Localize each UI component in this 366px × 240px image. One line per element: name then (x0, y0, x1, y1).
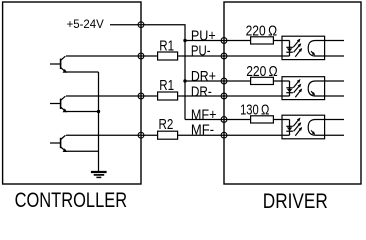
svg-text:130 Ω: 130 Ω (240, 103, 269, 119)
transistor Q1 (50, 56, 67, 72)
svg-text:R1: R1 (159, 78, 174, 94)
resistor R4 220 ohm (251, 77, 274, 84)
wire U1 anode input (224, 40, 251, 42)
wire feed bus to DR+ (185, 80, 224, 82)
node supply terminal on controller (138, 22, 144, 28)
wire feed bus to PU+ (185, 40, 224, 42)
node DR+ terminal on driver (221, 78, 227, 84)
wire U1 collector output (316, 40, 345, 42)
light arrows of U3 (293, 118, 302, 136)
svg-text:MF+: MF+ (191, 108, 217, 124)
wire Q3 emitter to ground rail (66, 150, 99, 152)
wire controller to R1 (141, 55, 158, 57)
wire supply to feed bus (141, 25, 185, 120)
node MF- terminal on driver (221, 132, 227, 138)
resistor R5 130 ohm (251, 116, 274, 123)
svg-text:DR+: DR+ (191, 69, 216, 85)
svg-text:CONTROLLER: CONTROLLER (15, 189, 128, 210)
controller box (3, 2, 141, 184)
svg-text:220 Ω: 220 Ω (246, 24, 278, 40)
wire DR- collector to controller edge (66, 95, 141, 97)
junction on PU+ (183, 39, 186, 42)
node PU- terminal on controller (138, 53, 144, 59)
node DR- terminal on driver (221, 93, 227, 99)
node DR- terminal on controller (138, 93, 144, 99)
wire Q2 emitter to ground rail (66, 111, 99, 113)
driver box (224, 2, 361, 184)
junction on DR+ (183, 79, 186, 82)
wire R1 to driver PU- (178, 55, 224, 57)
node MF+ terminal on driver (221, 117, 227, 123)
node PU- terminal on driver (221, 53, 227, 59)
transistor Q2 (50, 96, 67, 112)
node MF- terminal on controller (138, 132, 144, 138)
resistor R1 (158, 92, 178, 100)
wire controller to R2 (141, 134, 158, 136)
wire MF- collector to controller edge (66, 134, 141, 136)
wire R4 to U2 LED (273, 80, 289, 82)
wire R2 to driver MF- (178, 134, 224, 136)
wire U1 emitter output (316, 55, 345, 57)
wire U2 cathode input (224, 95, 290, 97)
wire feed bus to MF+ (185, 119, 224, 121)
wire +5-24V to controller terminal (110, 24, 141, 26)
LED of U1 (286, 41, 293, 57)
optocoupler U3 (282, 115, 325, 139)
wire U3 collector output (316, 119, 345, 121)
svg-text:220 Ω: 220 Ω (246, 64, 278, 80)
svg-text:MF-: MF- (191, 123, 214, 139)
svg-text:PU-: PU- (191, 43, 211, 59)
light arrows of U1 (293, 39, 302, 57)
wire ground rail (98, 72, 100, 171)
wire R5 to U3 LED (273, 119, 289, 121)
svg-text:+5-24V: +5-24V (67, 17, 104, 31)
svg-text:R1: R1 (159, 38, 174, 54)
wire controller to R1 (141, 95, 158, 97)
wire U2 collector output (316, 80, 345, 82)
svg-text:R2: R2 (159, 117, 174, 133)
phototransistor of U1 (308, 41, 315, 57)
phototransistor of U2 (308, 81, 315, 96)
resistor R3 220 ohm (251, 37, 274, 44)
optocoupler U1 (282, 36, 325, 59)
resistor R2 (158, 131, 178, 139)
svg-text:DRIVER: DRIVER (263, 190, 328, 210)
ground (91, 172, 107, 177)
wire U3 emitter output (316, 134, 345, 136)
wire R1 to driver DR- (178, 95, 224, 97)
wire PU- collector to controller edge (66, 55, 141, 57)
svg-text:PU+: PU+ (191, 28, 216, 44)
LED of U3 (286, 120, 293, 136)
wire U3 cathode input (224, 134, 290, 136)
light arrows of U2 (293, 79, 302, 97)
wire Q1 emitter to ground rail (66, 71, 99, 73)
svg-text:DR-: DR- (191, 85, 212, 101)
optocoupler U2 (282, 77, 325, 100)
wire U3 anode input (224, 119, 251, 121)
wire R3 to U1 LED (273, 40, 289, 42)
node PU+ terminal on driver (221, 38, 227, 44)
junction Q2 emitter / ground rail (97, 110, 100, 113)
transistor Q3 (50, 135, 67, 152)
LED of U2 (286, 81, 293, 96)
wire U1 cathode input (224, 55, 290, 57)
resistor R1 (158, 52, 178, 60)
wire U2 anode input (224, 80, 251, 82)
wire U2 emitter output (316, 95, 345, 97)
phototransistor of U3 (308, 120, 315, 136)
